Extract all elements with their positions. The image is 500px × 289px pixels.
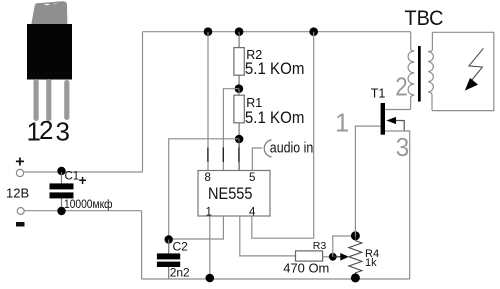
transformer primary winding — [408, 51, 414, 95]
transformer core — [418, 46, 421, 102]
node R2-R1 junction — [235, 84, 244, 93]
node R4 top — [351, 231, 360, 240]
svg-text:10000мкф: 10000мкф — [64, 199, 113, 211]
resistor R1 — [234, 95, 244, 123]
audio input bubble — [264, 140, 271, 157]
svg-text:12В: 12В — [6, 186, 29, 201]
wire wiper loop — [333, 236, 356, 257]
svg-text:5.1 KOm: 5.1 KOm — [245, 60, 305, 78]
node top rail pin8 — [204, 27, 213, 36]
resistor R3 — [296, 251, 323, 261]
svg-text:+: + — [15, 153, 24, 170]
svg-text:2: 2 — [39, 115, 53, 145]
wire R1 bottom lead — [238, 123, 240, 139]
wire source arrow branch — [396, 121, 404, 132]
wire C2 bottom lead — [168, 267, 170, 279]
wire bottom rail — [142, 278, 410, 280]
wire minus lead — [25, 210, 142, 212]
svg-text:audio in: audio in — [270, 141, 314, 157]
lightning bolt arrow head — [465, 78, 478, 91]
wire pin6 — [238, 139, 240, 171]
wire R2 top lead — [238, 32, 240, 48]
svg-text:C2: C2 — [173, 240, 189, 254]
battery plus terminal — [16, 169, 23, 176]
svg-text:T1: T1 — [371, 87, 386, 101]
node top rail R2 — [235, 27, 244, 36]
wire plus lead — [24, 171, 143, 173]
wire junction to pin7 — [223, 89, 239, 171]
pin 7 stub — [222, 148, 224, 163]
capacitor C2 bottom plate — [157, 262, 180, 267]
wire C1 top lead — [61, 172, 63, 183]
node R1 bottom — [235, 135, 244, 144]
pin 6 stub — [238, 148, 240, 163]
node C1 top — [57, 167, 65, 175]
svg-text:R3: R3 — [313, 240, 327, 252]
lightning bolt stroke — [469, 48, 484, 80]
transistor package leg 2 — [46, 79, 51, 121]
pin 8 stub — [207, 148, 209, 163]
wire primary top lead — [411, 32, 415, 51]
wire pin8 — [207, 32, 209, 171]
transistor package leg 3 — [64, 80, 69, 120]
transistor package leg 1 — [34, 79, 39, 121]
svg-text:C1: C1 — [65, 171, 80, 183]
wire left rail upper — [142, 32, 144, 172]
wire top rail — [143, 31, 411, 33]
svg-text:4: 4 — [249, 206, 256, 218]
wire pin2 to C2 — [169, 216, 224, 239]
transistor T1 channel bar — [381, 103, 385, 135]
svg-text:1k: 1k — [365, 257, 377, 269]
wire C1 bottom lead — [61, 198, 63, 210]
wiper arrow head — [340, 253, 349, 261]
node pin1 ground — [206, 274, 215, 283]
wire reset to pin4 — [252, 216, 314, 238]
svg-text:1: 1 — [206, 206, 212, 218]
transformer secondary winding — [428, 52, 433, 92]
wire R1 bottom to C2 branch — [169, 139, 239, 240]
svg-text:3: 3 — [56, 117, 70, 147]
node R4 bottom — [351, 273, 360, 282]
svg-text:1: 1 — [335, 109, 349, 137]
svg-text:5: 5 — [249, 172, 255, 184]
wire pin5 to audio bubble — [252, 148, 262, 171]
wire C2 top lead — [168, 240, 170, 254]
op-amp U1 NE555 box — [198, 171, 270, 217]
battery minus sign — [16, 222, 25, 227]
wire reset vertical — [313, 32, 315, 239]
capacitor C2 top plate — [157, 253, 180, 259]
potentiometer R4 zigzag — [349, 236, 362, 278]
wire R2 bottom lead — [238, 75, 240, 89]
capacitor C1 top plate — [50, 183, 74, 189]
battery minus terminal — [17, 208, 24, 215]
svg-text:470 Om: 470 Om — [283, 260, 329, 275]
wire pin3 to R3 — [240, 216, 296, 256]
wire secondary top lead — [428, 32, 432, 51]
wiper arrow line — [333, 256, 341, 258]
wire drain — [385, 109, 411, 111]
svg-text:NE555: NE555 — [208, 184, 253, 203]
resistor R2 — [234, 48, 244, 76]
svg-text:ТВС: ТВС — [405, 6, 444, 30]
wire gate — [355, 126, 380, 236]
svg-text:2: 2 — [395, 73, 408, 101]
wire source lead — [385, 131, 410, 279]
node wiper — [329, 253, 337, 261]
svg-text:R1: R1 — [246, 96, 262, 110]
transistor package photo tab — [31, 1, 67, 26]
transistor package body — [27, 24, 72, 80]
wire secondary bottom lead — [428, 92, 432, 111]
node C2 top — [165, 235, 173, 243]
wire R1 top lead — [238, 89, 240, 96]
wire primary bottom lead — [411, 95, 415, 110]
wire left rail lower — [141, 211, 143, 279]
wire secondary loop — [432, 32, 494, 110]
svg-text:8: 8 — [205, 172, 211, 184]
wire pin1 to ground — [209, 216, 211, 279]
wire R3 to wiper node — [323, 256, 333, 258]
svg-text:3: 3 — [396, 134, 410, 162]
node top rail reset — [309, 27, 318, 36]
svg-text:5.1 KOm: 5.1 KOm — [245, 109, 305, 127]
svg-text:+: + — [79, 173, 87, 188]
source arrow head — [386, 117, 396, 124]
svg-text:2n2: 2n2 — [170, 266, 190, 280]
capacitor C1 bottom plate — [50, 192, 74, 198]
node C1 bottom — [57, 207, 65, 215]
